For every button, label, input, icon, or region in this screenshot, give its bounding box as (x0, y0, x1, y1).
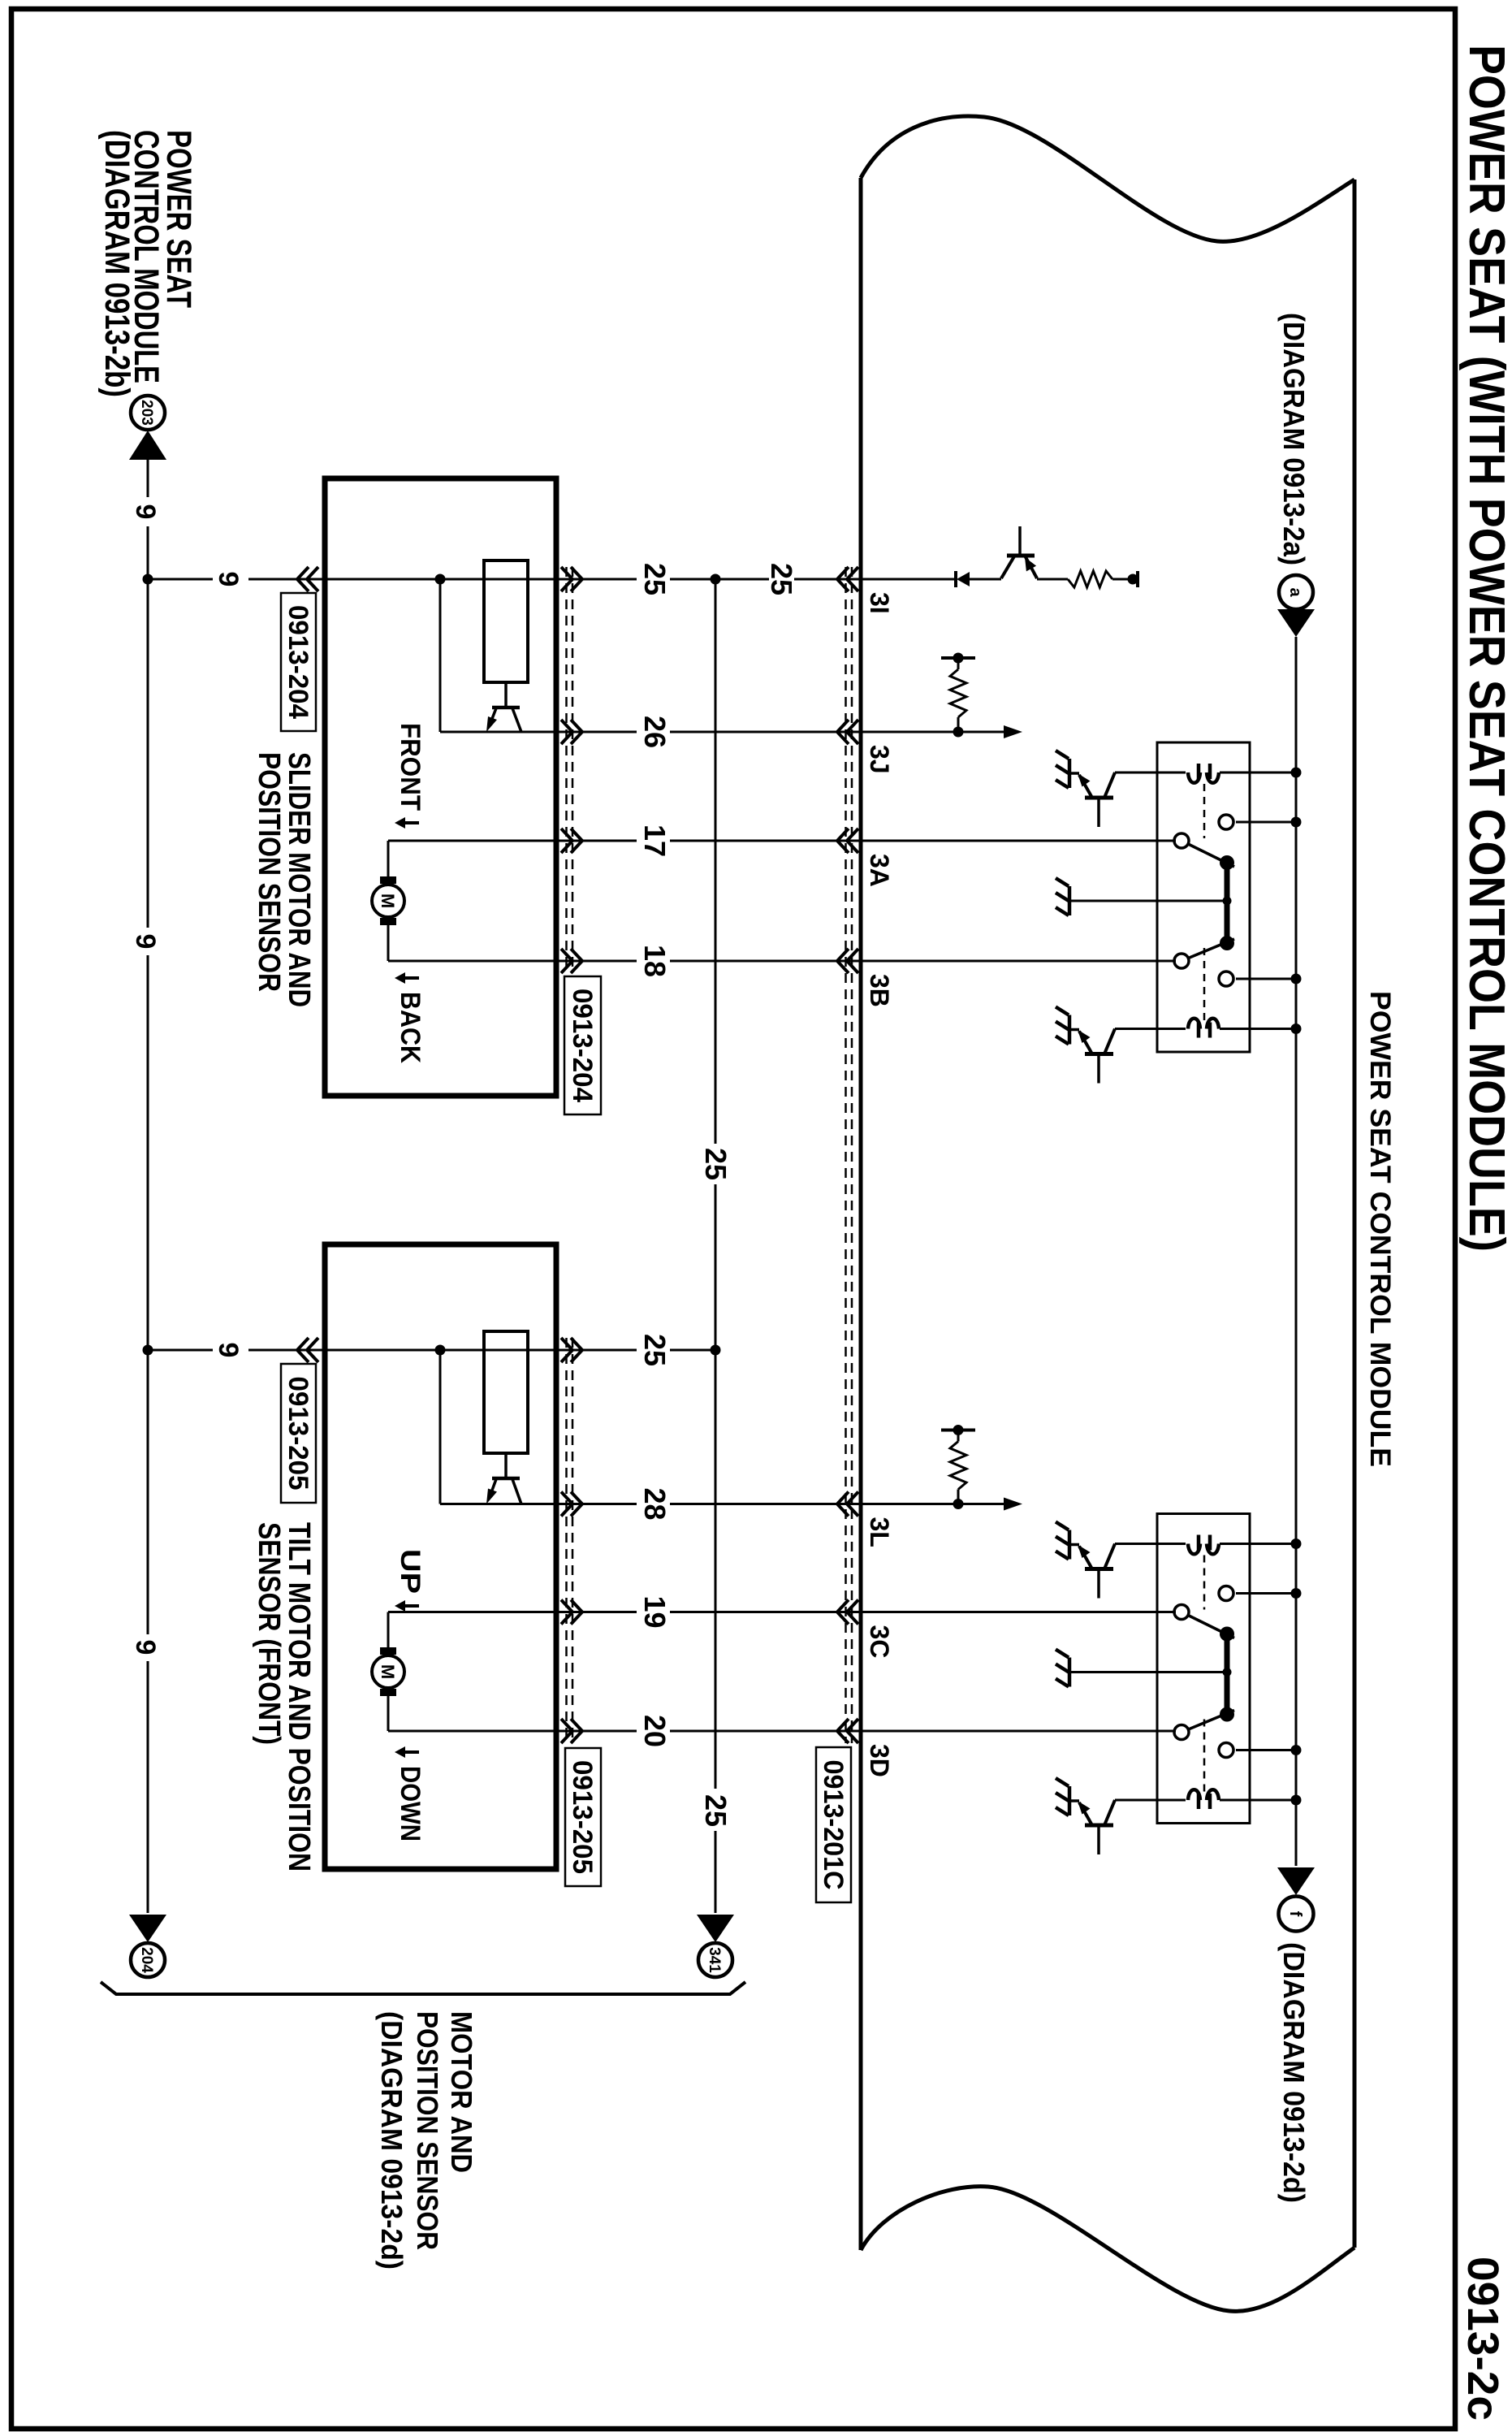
terminal dot R3 (953, 1425, 964, 1435)
wire 19 (3C to tilt motor) (670, 1611, 858, 1613)
svg-text:FRONT: FRONT (395, 723, 426, 811)
relay K2 movable arm 1 (1182, 1612, 1234, 1638)
svg-text:BACK: BACK (395, 992, 426, 1063)
arrow to connector 203 (129, 431, 166, 460)
25 distribution wire (715, 579, 717, 1144)
arrow to connector f (1277, 1867, 1315, 1895)
svg-text:3A: 3A (865, 854, 894, 887)
label box 0913-204 right (564, 976, 601, 1114)
relay K1 NC contact circle 1 (1219, 815, 1233, 829)
relay K1 pivot dot 1 (1220, 855, 1234, 870)
wire 26 inside box (440, 731, 556, 733)
junction dot rail9/tilt feed (143, 1345, 153, 1356)
svg-text:3J: 3J (865, 745, 894, 774)
relay K2 coil B (1207, 1789, 1219, 1800)
tilt box connector dashes (572, 1338, 574, 1743)
svg-text:DOWN: DOWN (395, 1766, 426, 1841)
VR2 wiper stem (504, 1453, 508, 1478)
wire 3D to relay K2 (858, 1730, 1176, 1733)
connector chevrons at pin 3I (837, 567, 849, 591)
relay K2 coil A wire (1220, 1543, 1296, 1545)
relay K2 armature center junction (1223, 1668, 1232, 1677)
relay K2 box (1157, 1514, 1250, 1824)
svg-text:0913-204: 0913-204 (567, 989, 598, 1102)
transistor Q5 base diagonal (1001, 556, 1014, 578)
arrow into rail from a (1277, 609, 1315, 637)
svg-text:204: 204 (138, 1947, 155, 1973)
wire 18 (3B to slider motor) (670, 960, 858, 963)
svg-text:25: 25 (638, 1334, 672, 1366)
slider box chevrons x=713 (571, 567, 582, 591)
junction dot rail-coilA K1 (1291, 768, 1302, 778)
svg-text:3C: 3C (865, 1625, 894, 1659)
resistor R3 (950, 1442, 966, 1490)
wire 3I to resistor (1037, 578, 1068, 581)
arrow to connector 341 (697, 1915, 734, 1942)
svg-text:25: 25 (638, 563, 672, 595)
tilt box chevrons x=2131 (571, 1719, 582, 1743)
junction dot wire25/25-line (711, 574, 721, 585)
terminal bar R3 (941, 1429, 975, 1432)
relay K1 NC contact circle 2 (1219, 972, 1233, 986)
ground (relay K2 armature) (1068, 1658, 1072, 1687)
junction dot rail-coilB K2 (1291, 1795, 1302, 1806)
wire 3L inside module (858, 1503, 1004, 1505)
module connector dashed line pair (851, 567, 853, 1743)
relay K2 pivot dot 1 (1220, 1627, 1234, 1642)
VR1 bottom junction dot (435, 574, 446, 585)
relay K2 movable arm 2 (1182, 1711, 1234, 1733)
relay K2 pivot dot 2 (1220, 1707, 1234, 1722)
connector chevrons at pin 3D (837, 1719, 849, 1743)
wire 3C to relay K2 (858, 1611, 1176, 1613)
connector circle f (1279, 1897, 1314, 1932)
rail 9 wire (147, 460, 149, 497)
tilt motor and position sensor box (325, 1244, 556, 1869)
connector chevrons at pin 3A (837, 829, 849, 853)
svg-text:UP: UP (395, 1549, 426, 1594)
junction dot rail-NC1 K2 (1291, 1588, 1302, 1599)
relay K2 NC contact 2 wire (1236, 1749, 1296, 1751)
relay K1 movable arm 1 (1182, 841, 1234, 867)
VR2 wiper bar (492, 1477, 520, 1481)
VR2 wiper lower diagonal (489, 1479, 496, 1499)
svg-text:0913-205: 0913-205 (283, 1377, 313, 1491)
signal arrow on 3L (1004, 1498, 1022, 1511)
connector chevrons at pin 3B (837, 949, 849, 973)
VR1 wiper bar (492, 706, 520, 710)
connector circle 203 (131, 396, 165, 430)
svg-text:0913-201C: 0913-201C (818, 1760, 849, 1890)
label box 0913-205 left (281, 1364, 316, 1503)
relay K1 box (1157, 742, 1250, 1052)
ground (relay K1 armature) (1068, 886, 1072, 915)
motor M2 feed wires (387, 1612, 390, 1648)
relay K2 coil B wire (1220, 1799, 1296, 1802)
transistor Q5 base bar (1007, 554, 1035, 558)
VR1 wiper lower diagonal (489, 708, 496, 727)
svg-text:9: 9 (130, 934, 161, 950)
connector circle 204 (131, 1943, 165, 1977)
svg-text:17: 17 (638, 824, 672, 857)
svg-text:25: 25 (699, 1794, 732, 1827)
slider box chevrons x=1183 (571, 949, 582, 973)
VR2 wiper upper diagonal (512, 1479, 521, 1504)
relay K2 common contact circle 1 (1174, 1605, 1189, 1620)
motor M1 feed wires (387, 841, 390, 876)
supply rail wire (1295, 637, 1298, 1866)
connector chevrons at pin 3C (837, 1600, 849, 1625)
transistor Q5 stub (1018, 526, 1022, 556)
svg-text:9: 9 (213, 1343, 244, 1358)
svg-text:203: 203 (138, 400, 155, 426)
svg-text:TILT MOTOR AND POSITION: TILT MOTOR AND POSITION (282, 1522, 316, 1872)
svg-text:SENSOR (FRONT): SENSOR (FRONT) (252, 1522, 286, 1745)
slider box chevrons x=901 (571, 720, 582, 744)
wire 26 (3J to slider sensor) (670, 731, 858, 733)
svg-text:(DIAGRAM 0913-2a): (DIAGRAM 0913-2a) (1277, 313, 1311, 565)
relay K1 common contact circle 2 (1174, 954, 1189, 968)
motor M2 (372, 1655, 404, 1688)
svg-text:(DIAGRAM 0913-2d): (DIAGRAM 0913-2d) (1277, 1942, 1311, 2203)
label BACK with arrow (403, 976, 419, 980)
relay K2 coil A (1207, 1544, 1219, 1555)
terminal bar R2 (941, 656, 975, 660)
relay K1 movable arm 2 (1182, 939, 1234, 961)
svg-text:POWER SEAT (WITH POWER SEAT CO: POWER SEAT (WITH POWER SEAT CONTROL MODU… (1458, 45, 1512, 1252)
wire 25 (3I to slider sensor) (794, 578, 858, 581)
wire 3B to relay K1 (858, 960, 1176, 963)
slider box chevrons x=1035 (571, 829, 582, 853)
svg-text:f: f (1286, 1911, 1304, 1917)
slider feed wire (248, 578, 325, 581)
slider box feed chevrons (297, 567, 309, 591)
svg-text:19: 19 (638, 1595, 672, 1628)
power seat control module outline (torn-edge box) (1353, 180, 1357, 2248)
wire 3I inside module (970, 578, 1001, 581)
wire 3A to relay K1 (858, 840, 1176, 842)
relay K2 NC contact circle 1 (1219, 1586, 1233, 1601)
wire above R1 (1112, 578, 1133, 581)
motor M1 brushes (380, 876, 396, 884)
slider box connector dashes (572, 567, 574, 973)
svg-text:3B: 3B (865, 974, 894, 1007)
connector circle 341 (698, 1943, 732, 1977)
svg-text:26: 26 (638, 716, 672, 748)
svg-text:3L: 3L (865, 1517, 894, 1547)
junction dot resistor R3 (953, 1499, 964, 1509)
svg-text:3D: 3D (865, 1744, 894, 1777)
connector circle a (1279, 575, 1313, 609)
transistor Q3 (coil A driver) (1115, 1543, 1157, 1545)
junction dot rail-coilB K1 (1291, 1023, 1302, 1034)
svg-text:(DIAGRAM 0913-2d): (DIAGRAM 0913-2d) (375, 2011, 408, 2270)
position sensor element VR2 (484, 1331, 528, 1453)
relay K2 NC contact circle 2 (1219, 1743, 1233, 1758)
relay K2 NC contact 1 wire (1236, 1592, 1296, 1595)
tilt feed wire (248, 1349, 325, 1352)
svg-text:M: M (378, 1664, 398, 1679)
signal arrow on 3J (1004, 725, 1022, 738)
motor M1 (372, 885, 404, 917)
svg-text:341: 341 (706, 1947, 723, 1973)
svg-text:(DIAGRAM 0913-2b): (DIAGRAM 0913-2b) (97, 130, 136, 397)
svg-text:9: 9 (130, 1640, 161, 1655)
tilt box chevrons x=1662 (571, 1338, 582, 1362)
terminal bar above R1 (1136, 571, 1139, 587)
relay K1 coil A (1207, 772, 1219, 783)
VR2 bottom junction dot (435, 1345, 446, 1356)
terminal dot R2 (953, 653, 964, 664)
svg-text:M: M (378, 894, 398, 908)
wire 25 riser to tilt sensor (670, 1349, 715, 1352)
position sensor element VR1 (484, 560, 528, 682)
riser inside tilt box (528, 1349, 556, 1352)
svg-text:0913-204: 0913-204 (283, 605, 313, 719)
tilt box chevrons x=1984.5 (571, 1600, 582, 1625)
tilt box chevrons x=1851.5 (571, 1492, 582, 1517)
connector chevrons at pin 3J (837, 720, 849, 744)
transistor Q4 (coil B driver) (1115, 1799, 1157, 1802)
relay K1 coil B (1207, 1019, 1219, 1029)
relay K2 armature bar (1225, 1634, 1230, 1715)
junction dot rail-NC2 K1 (1291, 974, 1302, 984)
svg-text:20: 20 (638, 1715, 672, 1747)
svg-text:18: 18 (638, 945, 672, 977)
svg-text:a: a (1286, 587, 1304, 597)
relay K1 armature bar (1225, 863, 1230, 943)
resistor R2 (950, 669, 966, 717)
wire 20 (3D to tilt motor) (670, 1730, 858, 1733)
label box 0913-204 left (281, 593, 316, 731)
VR2 bottom link wire (439, 1350, 442, 1504)
svg-text:28: 28 (638, 1487, 672, 1520)
connector chevrons at pin 3L (837, 1492, 849, 1517)
wire 28 inside box (440, 1503, 556, 1505)
relay K1 mechanical link dashes (1203, 784, 1206, 838)
svg-text:POSITION SENSOR: POSITION SENSOR (411, 2011, 444, 2250)
VR1 wiper stem (504, 682, 508, 708)
junction dot riser/25-line (711, 1345, 721, 1356)
svg-text:25: 25 (765, 563, 798, 595)
grouping bracket (101, 1982, 745, 1994)
VR2 wire through (484, 1349, 528, 1352)
VR1 wiper upper diagonal (512, 708, 521, 732)
wire 17 (3A to slider motor) (670, 840, 858, 842)
terminal dot above R1 (1128, 574, 1138, 585)
VR1 bottom link wire (439, 579, 442, 732)
svg-text:POWER SEAT CONTROL MODULE: POWER SEAT CONTROL MODULE (1364, 991, 1396, 1467)
wire 28 (3L to tilt sensor) (670, 1503, 858, 1505)
relay K1 armature center junction (1223, 897, 1232, 906)
relay K1 armature ground wire (1069, 900, 1227, 902)
junction dot rail-NC1 K1 (1291, 817, 1302, 828)
tilt box feed chevrons (297, 1338, 309, 1362)
relay K1 coil B wire (1220, 1028, 1296, 1030)
relay K1 NC contact 1 wire (1236, 821, 1296, 824)
svg-text:POSITION SENSOR: POSITION SENSOR (252, 752, 286, 992)
arrow to connector 204 (129, 1915, 166, 1942)
svg-text:0913-2c: 0913-2c (1458, 2257, 1507, 2421)
svg-text:9: 9 (130, 504, 161, 520)
VR1 wire through (484, 578, 528, 581)
svg-text:0913-205: 0913-205 (567, 1760, 598, 1874)
relay K2 mechanical link dashes (1203, 1556, 1206, 1610)
junction dot resistor R2 (953, 727, 964, 738)
resistor R1 (1068, 571, 1112, 587)
transistor Q2 (coil B driver) (1115, 1028, 1157, 1030)
transistor Q5 collector diagonal (1025, 556, 1037, 578)
slider motor and position sensor box (325, 478, 556, 1096)
relay K1 NC contact 2 wire (1236, 978, 1296, 980)
svg-text:3I: 3I (865, 592, 894, 614)
svg-text:MOTOR AND: MOTOR AND (445, 2011, 478, 2173)
wire 25 inside slider box (528, 578, 556, 581)
svg-text:SLIDER MOTOR AND: SLIDER MOTOR AND (282, 752, 316, 1007)
motor M2 brushes (380, 1647, 396, 1655)
junction dot rail-coilA K2 (1291, 1538, 1302, 1549)
module connector label 0913-201C (816, 1747, 851, 1902)
relay K2 common contact circle 2 (1174, 1725, 1189, 1740)
relay K1 coil A wire (1220, 772, 1296, 774)
relay K1 common contact circle 1 (1174, 833, 1189, 848)
svg-text:25: 25 (699, 1148, 732, 1180)
svg-text:9: 9 (213, 572, 244, 587)
wire 3J inside module (858, 731, 1004, 733)
label box 0913-205 right (565, 1748, 601, 1886)
junction dot rail9/slider feed (143, 574, 153, 585)
diode D1 (957, 572, 970, 586)
transistor Q1 (coil A driver) (1115, 772, 1157, 774)
relay K1 pivot dot 2 (1220, 936, 1234, 950)
label DOWN with arrow (403, 1750, 419, 1754)
relay K2 armature ground wire (1069, 1671, 1227, 1673)
junction dot rail-NC2 K2 (1291, 1745, 1302, 1755)
